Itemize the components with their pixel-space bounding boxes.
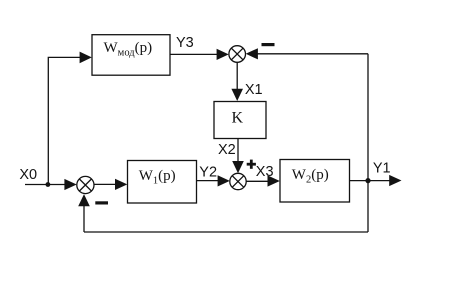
minus sign at S1 right input [262, 43, 275, 46]
svg-text:W1(p): W1(p) [139, 168, 176, 187]
arrow Y1 output [389, 175, 401, 186]
svg-text:X1: X1 [245, 82, 263, 98]
arrow into S1 left [217, 49, 229, 60]
label X2 [218, 142, 236, 158]
wire feedback up into S2 [83, 206, 85, 232]
arrow into S2 left [64, 179, 76, 190]
label Y2 [199, 165, 217, 181]
wire S2 to W1 [94, 183, 116, 185]
wire feedback right into S1 [257, 53, 368, 55]
wire K down to S3 [237, 139, 239, 163]
label X3 [256, 164, 274, 180]
arrow into Wmod [80, 52, 92, 64]
arrow into W2 [268, 175, 280, 186]
svg-text:W2(p): W2(p) [292, 167, 329, 186]
svg-text:Y1: Y1 [373, 160, 391, 176]
wire branch up from X0 to Wmod input [48, 57, 80, 184]
arrow into W1 [115, 179, 127, 190]
arrow into S2 bottom [78, 194, 90, 206]
label X0 [19, 167, 37, 183]
wire W2 output to node [350, 180, 369, 182]
svg-text:K: K [232, 109, 244, 126]
block Wmod(p) [92, 35, 170, 75]
node junction dot on Y1 line [365, 178, 370, 183]
arrow into S3 left [218, 175, 230, 186]
label Wmod(p) [104, 40, 153, 59]
wire feedback right vertical [367, 54, 369, 232]
label K [232, 109, 244, 126]
summing junction S3 (middle) [230, 173, 246, 189]
node branch dot on X0 line [46, 182, 51, 187]
summing junction S2 (left) [77, 176, 94, 193]
label Y3 [176, 35, 194, 51]
svg-text:Y2: Y2 [199, 165, 217, 181]
label W2(p) [292, 167, 329, 186]
wire Y3 from Wmod to S1 [170, 53, 218, 55]
block W1(p) [128, 161, 197, 204]
wire S1 down to K [236, 62, 238, 90]
summing junction S1 (top) [229, 46, 246, 63]
svg-text:Wмод(p): Wмод(p) [104, 40, 153, 59]
block W2(p) [280, 160, 350, 203]
svg-text:X2: X2 [218, 142, 236, 158]
wire Y2 from W1 to S3 [197, 180, 219, 182]
svg-text:Y3: Y3 [176, 35, 194, 51]
minus sign at S2 bottom input [95, 201, 108, 204]
arrow into S3 top [232, 161, 244, 173]
wire X3 from S3 to W2 [246, 180, 268, 182]
plus sign at S3 top input [247, 160, 256, 169]
wire Y1 output [368, 180, 390, 182]
svg-text:X0: X0 [19, 167, 37, 183]
svg-text:X3: X3 [256, 164, 274, 180]
label X1 [245, 82, 263, 98]
label Y1 [373, 160, 391, 176]
wire X0 input [25, 184, 65, 186]
arrow into S1 right [246, 48, 258, 59]
arrow into K top [231, 89, 243, 101]
block K [214, 102, 266, 139]
label W1(p) [139, 168, 176, 187]
wire feedback bottom horizontal [84, 231, 368, 233]
